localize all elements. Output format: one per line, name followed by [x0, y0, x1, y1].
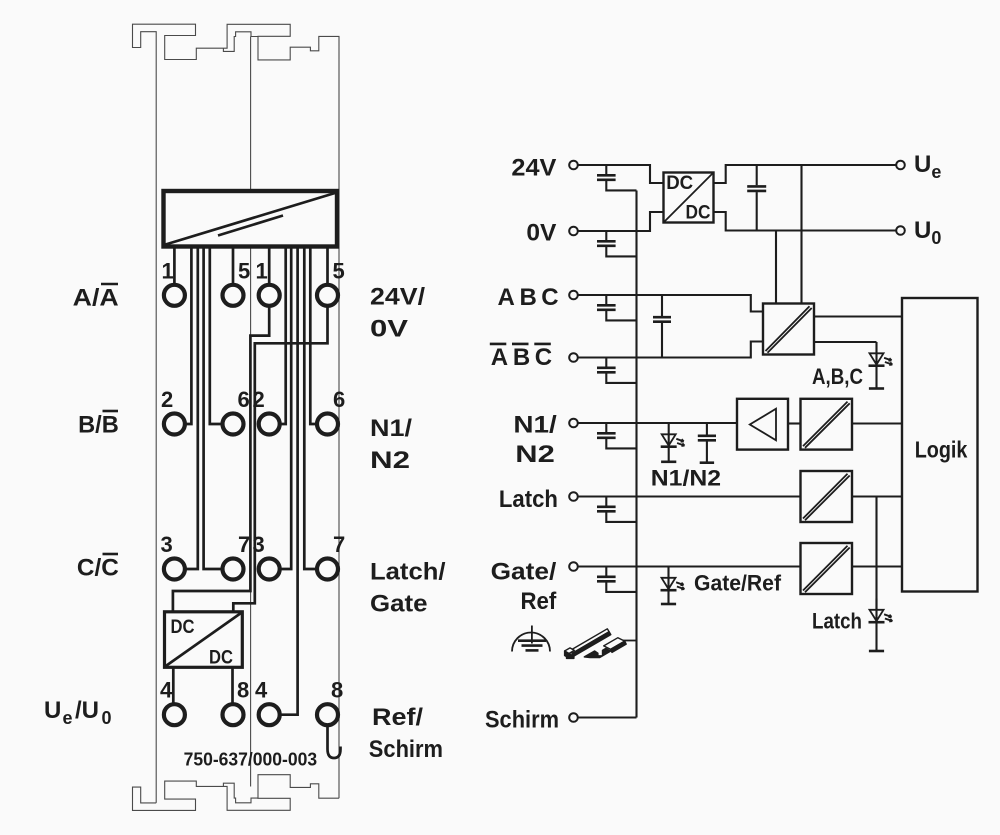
svg-text:8: 8 — [331, 678, 343, 703]
opto-coupler A,B,C — [763, 304, 814, 355]
svg-text:B: B — [520, 284, 537, 311]
svg-text:N1/: N1/ — [370, 415, 412, 442]
electronics box with diagonal — [164, 191, 338, 247]
svg-text:DC: DC — [686, 202, 711, 223]
svg-text:C: C — [535, 344, 552, 371]
supply drop to A,B,C opto (outer) — [800, 165, 802, 304]
terminal pin 6 row 2 — [223, 414, 244, 435]
svg-text:5: 5 — [333, 258, 345, 283]
svg-text:0V: 0V — [526, 219, 556, 246]
terminal pin 4 row 4 — [259, 704, 280, 725]
capacitor across Ue/U0 rails — [756, 165, 758, 185]
terminal pin 2 row 2 — [259, 414, 280, 435]
DC/DC converter box (module) — [165, 612, 243, 668]
module top step and divider tab — [223, 32, 258, 52]
svg-text:Schirm: Schirm — [369, 736, 443, 763]
module bottom contour — [133, 775, 340, 811]
svg-text:4: 4 — [255, 678, 268, 703]
wire DC/DC out to Ue — [714, 165, 897, 183]
input terminal 0V — [569, 227, 578, 236]
wire 0V to DC/DC — [578, 212, 664, 231]
svg-text:Schirm: Schirm — [485, 706, 559, 733]
module side edges — [156, 191, 339, 803]
terminal pin 1 row 1 — [259, 285, 280, 306]
svg-text:A: A — [491, 344, 508, 371]
terminal pin 2 row 2 — [164, 414, 185, 435]
svg-text:2: 2 — [161, 387, 173, 412]
svg-text:24V/: 24V/ — [370, 283, 425, 310]
svg-text:6: 6 — [238, 387, 250, 412]
input terminal Gate/Ref — [569, 562, 578, 571]
LED N1/N2 — [668, 423, 670, 447]
module bottom step — [223, 783, 258, 803]
capacitor on Latch input — [605, 497, 607, 506]
terminal pin 7 row 3 — [317, 559, 338, 580]
functional earth symbol — [512, 633, 550, 652]
wire Latch opto to Logik — [852, 495, 902, 497]
wire 24V to DC/DC — [578, 165, 664, 183]
input terminal Latch — [569, 492, 578, 501]
LED Latch — [875, 599, 877, 623]
supply drop to A,B,C opto (inner) — [775, 231, 777, 304]
terminal pin 5 row 1 — [317, 285, 338, 306]
wire DC/DC out to U0 — [714, 212, 897, 231]
wire A B C input — [578, 295, 763, 312]
svg-text:A,B,C: A,B,C — [812, 364, 863, 389]
Logik box — [902, 298, 978, 592]
LED A,B,C — [875, 342, 877, 366]
input terminal A B C — [569, 291, 578, 300]
terminal pin 1 row 1 — [164, 285, 185, 306]
svg-text:DC: DC — [171, 617, 195, 638]
svg-text:B/B: B/B — [78, 412, 119, 439]
input terminal N1/N2 — [569, 419, 578, 428]
wire A,B,C opto to Logik — [814, 315, 902, 317]
svg-text:Latch: Latch — [812, 609, 862, 634]
svg-text:Gate: Gate — [370, 590, 428, 617]
wire A,B,C opto to LED — [814, 341, 877, 343]
capacitor on Gate input — [605, 567, 607, 576]
wire Schirm input to bus — [578, 716, 637, 718]
svg-text:1: 1 — [162, 258, 174, 283]
wire stubs box to row1 terminals — [173, 247, 176, 284]
svg-text:A/A: A/A — [73, 285, 119, 312]
wire N1 amp to opto — [788, 422, 801, 424]
terminal pin 4 row 4 — [164, 704, 185, 725]
wire box to pin 7 right — [304, 247, 317, 570]
wire 24V feed pin1 right to DC/DC — [173, 306, 269, 612]
capacitor on N1 input — [605, 423, 607, 432]
wire box to pin 7 left — [204, 247, 223, 570]
wire box to pin 6 left — [210, 247, 223, 425]
wire box to pin 6 right — [310, 247, 317, 425]
wire N1 opto to Logik — [852, 422, 902, 424]
svg-text:DC: DC — [666, 173, 693, 194]
svg-text:Latch: Latch — [499, 486, 558, 513]
svg-text:0V: 0V — [370, 315, 408, 342]
capacitor between A and A-bar lines — [661, 295, 663, 316]
svg-text:1: 1 — [256, 258, 268, 283]
wire N1/N2 input — [578, 422, 737, 424]
wire box to pin 3 left — [185, 247, 198, 570]
opto-coupler Gate — [801, 543, 853, 594]
wire 0V feed pin5 right to DC/DC — [233, 306, 327, 612]
module outline top contour — [133, 24, 340, 191]
svg-text:Logik: Logik — [915, 436, 968, 462]
input terminal A-bar B-bar C-bar — [569, 353, 578, 362]
svg-text:5: 5 — [238, 258, 250, 283]
svg-text:Ref: Ref — [521, 588, 558, 615]
svg-text:Ref/: Ref/ — [372, 704, 423, 731]
capacitor on 24V input — [605, 165, 607, 174]
svg-text:8: 8 — [237, 678, 249, 703]
short parallel diagonal — [218, 216, 283, 236]
svg-text:N1/N2: N1/N2 — [651, 465, 721, 490]
shield hook below pin 8 right — [328, 725, 341, 758]
wire A-bar input — [578, 342, 763, 358]
wire box to pin 3 right — [280, 247, 292, 570]
output terminal Ue — [896, 161, 905, 170]
DC/DC converter box (schematic) — [664, 173, 714, 223]
wire DIN rail to bus — [623, 640, 637, 642]
svg-text:C/C: C/C — [77, 555, 119, 582]
ground bus vertical — [635, 191, 637, 718]
capacitor on A B C input — [605, 295, 607, 304]
capacitor on A-bar input — [605, 358, 607, 367]
LED Gate/Ref — [667, 567, 669, 591]
DIN rail icon — [565, 629, 627, 659]
wire Latch to LED — [875, 497, 877, 611]
wire Gate opto to Logik — [852, 565, 902, 567]
svg-text:A: A — [498, 284, 515, 311]
terminal pin 7 row 3 — [223, 559, 244, 580]
svg-text:Gate/Ref: Gate/Ref — [694, 571, 782, 596]
capacitor on 0V input — [605, 231, 607, 240]
input terminal 24V — [569, 161, 578, 170]
svg-text:3: 3 — [161, 532, 173, 557]
svg-text:C: C — [541, 284, 558, 311]
svg-text:24V: 24V — [511, 154, 556, 181]
wire box to pin 2 right — [280, 247, 286, 425]
output terminal U0 — [896, 226, 905, 235]
terminal pin 3 row 3 — [164, 559, 185, 580]
svg-text:N1/: N1/ — [513, 412, 557, 439]
svg-text:4: 4 — [160, 678, 173, 703]
terminal pin 8 row 4 — [223, 704, 244, 725]
terminal pin 3 row 3 — [259, 559, 280, 580]
amplifier box N1 — [737, 399, 788, 450]
svg-text:DC: DC — [209, 648, 233, 669]
svg-text:7: 7 — [238, 532, 250, 557]
svg-text:750-637/000-003: 750-637/000-003 — [184, 748, 318, 769]
wire box to pin 2 left — [185, 247, 192, 425]
svg-text:Gate/: Gate/ — [491, 559, 557, 586]
svg-text:7: 7 — [333, 532, 345, 557]
svg-text:B: B — [513, 344, 530, 371]
wire box to pin 4 right — [280, 247, 298, 715]
DC/DC outputs to pins 4,8 — [172, 667, 175, 703]
svg-text:Latch/: Latch/ — [370, 558, 446, 585]
capacitor N1 to ground — [706, 423, 708, 435]
terminal pin 8 row 4 — [317, 704, 338, 725]
opto-coupler Latch — [801, 471, 853, 522]
opto-coupler N1 — [801, 399, 853, 450]
terminal pin 5 row 1 — [223, 285, 244, 306]
wire Latch input — [578, 495, 801, 497]
terminal pin 6 row 2 — [317, 414, 338, 435]
module divider line — [250, 37, 252, 787]
svg-text:6: 6 — [333, 387, 345, 412]
wire Gate/Ref input — [578, 565, 801, 567]
svg-text:N2: N2 — [370, 447, 410, 474]
svg-text:N2: N2 — [515, 441, 555, 468]
input terminal Schirm — [569, 713, 578, 722]
